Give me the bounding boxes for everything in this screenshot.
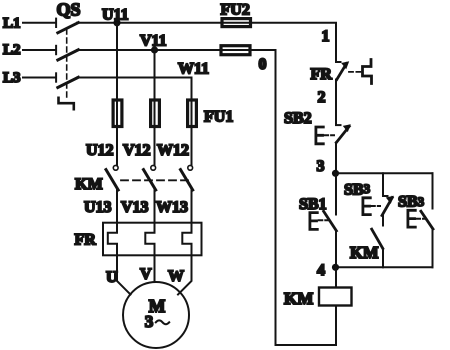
fuse FU1 U (113, 100, 122, 128)
svg-text:QS: QS (57, 0, 81, 20)
svg-text:U11: U11 (102, 7, 129, 24)
wire V to motor (154, 255, 156, 282)
wire V11 drop (154, 50, 156, 100)
svg-text:KM: KM (350, 243, 379, 262)
wire L2 bus (77, 49, 221, 51)
svg-text:L3: L3 (3, 70, 21, 86)
wire rail bottom (336, 266, 433, 268)
wire W to motor (178, 255, 192, 294)
svg-text:U: U (106, 269, 118, 286)
wire rail top (336, 172, 433, 174)
thermal relay FR box (103, 223, 202, 256)
svg-text:W: W (168, 268, 184, 285)
label 3~ (145, 312, 169, 331)
FR heater W (182, 223, 191, 256)
FR contact (336, 61, 349, 125)
wire L1 bus (77, 22, 222, 24)
svg-text:W13: W13 (156, 199, 188, 216)
fuse FU1 W (188, 100, 197, 128)
svg-text:3: 3 (317, 158, 325, 175)
fuse FU1 V (151, 100, 160, 128)
svg-text:SB1: SB1 (299, 196, 327, 213)
svg-text:L1: L1 (3, 16, 21, 32)
contactor KM main V (144, 165, 156, 222)
svg-text:2: 2 (318, 89, 326, 106)
wire L2 lead (23, 49, 56, 51)
svg-text:SB3: SB3 (398, 194, 425, 211)
svg-text:KM: KM (284, 289, 313, 308)
wire U11 drop (116, 23, 118, 100)
svg-text:U12: U12 (86, 142, 114, 159)
svg-text:W11: W11 (178, 61, 209, 78)
pushbutton SB2 (316, 124, 351, 169)
FR heater U (108, 223, 117, 256)
node 4 (332, 264, 339, 271)
wire L3 lead (23, 77, 56, 79)
svg-text:V12: V12 (123, 142, 151, 159)
contactor KM main W (181, 165, 193, 222)
svg-text:V: V (140, 266, 152, 283)
KM main linkage (121, 179, 188, 181)
switch QS pole 1 (56, 19, 78, 33)
fuse FU2a (222, 19, 252, 27)
svg-text:U13: U13 (84, 199, 112, 216)
wire L1 to control (251, 23, 336, 62)
svg-text:FR: FR (75, 232, 97, 249)
QS linkage (66, 29, 68, 98)
wire L3 bus (77, 78, 192, 100)
switch QS pole 3 (56, 73, 78, 87)
wire neutral 0 (251, 50, 337, 345)
pushbutton SB3 NC (363, 173, 394, 225)
svg-text:0: 0 (259, 56, 267, 73)
svg-text:L2: L2 (3, 42, 21, 58)
coil KM (319, 267, 352, 305)
contactor KM main U (106, 165, 118, 222)
svg-text:FU1: FU1 (204, 109, 233, 126)
wire V12 drop (154, 127, 156, 165)
FR heater V (145, 223, 154, 256)
wire U to motor (117, 255, 131, 294)
wire L1 lead (23, 22, 56, 24)
svg-text:SB3: SB3 (344, 181, 371, 199)
node U11 (113, 19, 120, 26)
node 3 (332, 170, 339, 177)
svg-text:FU2: FU2 (221, 2, 250, 19)
svg-text:FR: FR (311, 66, 333, 83)
contact KM aux (372, 229, 383, 267)
FR thermal element (363, 60, 372, 84)
motor M (123, 282, 189, 348)
wire U12 drop (116, 127, 118, 165)
svg-text:3: 3 (145, 312, 154, 331)
fuse FU2b (221, 46, 251, 55)
svg-text:1: 1 (322, 28, 330, 45)
svg-text:4: 4 (317, 262, 325, 279)
svg-text:V11: V11 (140, 33, 167, 50)
pushbutton SB3 NO (408, 173, 433, 267)
node V11 (151, 46, 158, 53)
QS handle (59, 98, 74, 109)
wire W12 drop (191, 127, 193, 165)
switch QS pole 2 (56, 46, 78, 60)
FR trip linkage (349, 71, 361, 73)
pushbutton SB1 (310, 173, 337, 267)
svg-text:V13: V13 (121, 199, 149, 216)
svg-text:SB2: SB2 (284, 110, 312, 127)
svg-text:KM: KM (75, 176, 103, 193)
svg-text:W12: W12 (157, 142, 189, 159)
